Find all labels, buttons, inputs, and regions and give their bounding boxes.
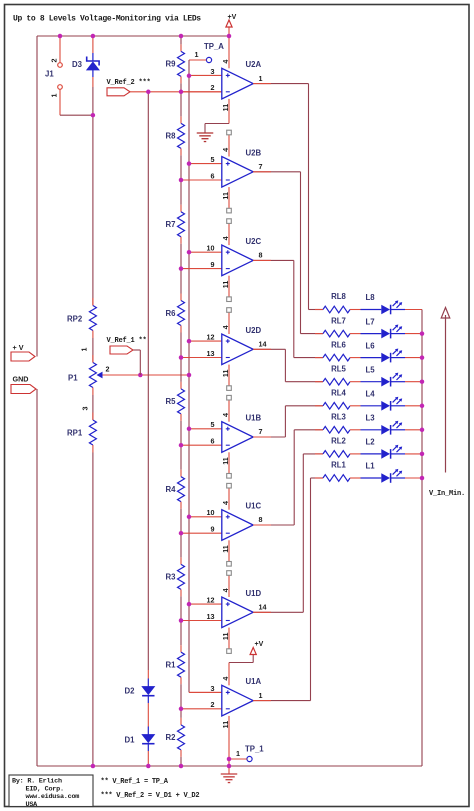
svg-text:V_In_Min.: V_In_Min. [429,490,465,498]
wire chain above R9 [180,36,182,44]
wire D3 to RP2 [92,87,94,306]
svg-text:6: 6 [211,171,215,180]
svg-text:U2D: U2D [246,326,262,335]
ground symbol at TP_1 [221,773,238,775]
wire bus U2A to LED row [308,84,310,310]
resistor RL4 [315,403,361,410]
svg-text:TP_A: TP_A [204,42,224,51]
op-amp U2B [181,148,263,200]
wire L6 cathode to bus [405,357,422,359]
svg-text:R4: R4 [166,485,177,494]
resistor R2 [178,725,185,750]
unconnected square U1D pin 4 [227,571,232,576]
wire chain below R1 [180,677,182,684]
unconnected square U2B pin 4 [227,130,232,135]
junction chain R6-R5 / U2D pin 13 [179,355,184,360]
svg-text:RP1: RP1 [67,429,83,438]
unconnected square U2D pin 4 [227,308,232,313]
junction TP_A line / U2B pin 5 [187,161,192,166]
svg-text:R9: R9 [166,60,177,69]
potentiometer P1 [80,348,110,411]
wire chain above R7 [180,180,182,205]
resistor RL6 [315,354,361,361]
resistor R1 [178,652,185,677]
svg-text:U1B: U1B [246,414,262,423]
svg-text:Up to 8 Levels Voltage-Monitor: Up to 8 Levels Voltage-Monitoring via LE… [13,15,201,24]
test point TP_1 [229,749,252,762]
svg-text:D2: D2 [125,687,136,696]
junction V_Ref_2 / D2 column [146,90,151,95]
junction ground rail / R2 [179,764,184,769]
svg-text:9: 9 [211,525,215,534]
junction +V rail / U2A pin 4 and +V [227,34,232,39]
junction TP_A line / U1B pin 5 [187,427,192,432]
resistor RL1 [315,475,361,482]
svg-text:TP_1: TP_1 [245,745,264,754]
junction +V rail / R9 top [179,34,184,39]
power flag GND [11,385,36,394]
wire RP2 to P1 [92,338,94,363]
resistor R5 [178,389,185,414]
wire U1C pin 4 stub [228,488,230,510]
wire chain above R8 [180,92,182,117]
diode D1 [142,727,154,752]
resistor R9 [178,51,185,76]
wire V_Ref_2 down to D2 [147,92,149,670]
wire ground bottom rail [37,765,422,767]
unconnected square U2C pin 11 [227,297,232,302]
svg-text:USA: USA [26,801,39,809]
svg-text:RL4: RL4 [331,389,346,398]
svg-text:D1: D1 [125,736,136,745]
test point TP_A [189,50,212,63]
svg-text:12: 12 [207,333,215,342]
svg-text:+ V: + V [13,343,24,352]
wire TP_A sense line down to U1A pin 3 [188,60,190,692]
svg-text:3: 3 [211,67,215,76]
wire D3 top lead [92,36,94,53]
wire L3 cathode to bus [405,429,422,431]
power symbol +V at U1A [250,648,256,655]
unconnected square U1C pin 4 [227,483,232,488]
wire U1A pin 11 down [228,716,230,774]
wire L5 cathode to bus [405,381,422,383]
svg-text:RL7: RL7 [331,316,346,325]
svg-text:GND: GND [13,375,29,384]
svg-text:By: R. Erlich: By: R. Erlich [12,778,62,786]
wire U1B pin 4 stub [228,400,230,422]
wire chain below R8 [180,148,182,155]
svg-text:1: 1 [80,348,89,352]
svg-text:3: 3 [211,684,215,693]
wire output U2A pin 1 [253,83,308,85]
net flag V_Ref_2 [107,88,130,96]
wire +V top rail [37,35,229,37]
wire D3 bottom lead [92,70,94,77]
LED L3 [361,421,406,435]
svg-text:8: 8 [259,251,263,260]
LED L5 [361,373,406,387]
unconnected square U1B pin 11 [227,474,232,479]
resistor R4 [178,477,185,502]
wire bus U2B to LED row [300,172,302,334]
LED L1 [361,469,406,483]
wire J1 pin1 to D3 column [60,114,93,116]
svg-text:6: 6 [211,437,215,446]
svg-text:14: 14 [259,340,267,349]
svg-text:www.eidusa.com: www.eidusa.com [26,793,80,801]
svg-text:R2: R2 [166,733,177,742]
svg-text:7: 7 [259,427,263,436]
LED L8 [361,300,406,314]
svg-text:U1D: U1D [246,589,262,598]
svg-text:U2A: U2A [246,60,262,69]
wire output U1C pin 8 [253,524,294,526]
svg-text:R5: R5 [166,397,177,406]
svg-text:12: 12 [207,596,215,605]
wire chain above R2 [180,709,182,718]
resistor R6 [178,301,185,326]
junction LED bus / L1 [420,476,425,481]
junction LED bus / L6 [420,355,425,360]
svg-text:J1: J1 [45,70,54,79]
svg-text:L4: L4 [366,390,376,399]
resistor R8 [178,123,185,148]
svg-text:V_Ref_1 **: V_Ref_1 ** [107,337,147,345]
junction chain R5-R4 / U1B pin 6 [179,443,184,448]
wire L8 cathode to bus [405,309,422,311]
wire L7 cathode to bus [405,333,422,335]
wire LED cathode bus [421,310,423,767]
junction TP_A line / U1C pin 10 [187,515,192,520]
junction +V rail / D3 column [91,34,96,39]
wire U2B pin 4 stub [228,135,230,157]
wire chain above R6 [180,269,182,294]
svg-text:** V_Ref_1 = TP_A: ** V_Ref_1 = TP_A [101,778,169,786]
wire chain below R5 [180,414,182,421]
op-amp U2D [181,325,267,377]
annotation arrow V_In_Min [441,308,450,473]
junction chain R1-R2 / U1A pin 2 [179,707,184,712]
wire bus U1D to LED row [302,454,304,612]
svg-text:R6: R6 [166,309,177,318]
wire U2D pin 4 stub [228,313,230,335]
wire V_Ref_2 to U2A pin 2 [130,91,222,93]
svg-text:L7: L7 [366,317,375,326]
ground symbol at U2A [197,132,214,134]
svg-text:L2: L2 [366,438,376,447]
junction TP_1 tap [227,757,232,762]
op-amp U1D [181,588,267,640]
title block box [9,775,93,807]
unconnected square U1D pin 11 [227,649,232,654]
svg-text:RL1: RL1 [331,461,346,470]
wire chain above R4 [180,445,182,470]
svg-text:2: 2 [106,365,110,374]
svg-text:1: 1 [50,94,59,98]
svg-text:L3: L3 [366,414,376,423]
unconnected square U1B pin 4 [227,395,232,400]
wire output U1D pin 14 [253,611,303,613]
unconnected square U1C pin 11 [227,562,232,567]
svg-text:2: 2 [211,700,215,709]
svg-text:14: 14 [259,603,267,612]
junction ground rail / RP1 [91,764,96,769]
svg-text:2: 2 [50,59,59,63]
diode D2 [142,679,154,704]
op-amp U1A [181,677,263,729]
svg-text:U2C: U2C [246,237,262,246]
wire U2B pin 11 stub [228,187,230,208]
svg-text:R8: R8 [166,132,177,141]
svg-text:EID, Corp.: EID, Corp. [26,785,64,793]
unconnected square U2D pin 11 [227,386,232,391]
net flag V_Ref_1 [110,346,133,354]
junction J1 pin 1 / D3 column [91,113,96,118]
junction LED bus / L4 [420,404,425,409]
op-amp U2C [181,236,263,288]
resistor R3 [178,564,185,589]
wire V_Ref_1 flag link [133,349,141,351]
wire U1A pin 4 to +V [228,663,230,686]
svg-text:R1: R1 [166,661,177,670]
wire chain above R1 [180,621,182,646]
svg-text:*** V_Ref_2 = V_D1 + V_D2: *** V_Ref_2 = V_D1 + V_D2 [101,792,200,800]
op-amp U2A [181,60,263,112]
junction LED bus / L2 [420,452,425,457]
wire L2 cathode to bus [405,453,422,455]
resistor RL3 [315,427,361,434]
zener diode D3 [87,57,99,71]
junction LED bus / L7 [420,331,425,336]
wire left rail upper (+V feed) [36,36,38,357]
svg-text:1: 1 [259,74,263,83]
wire bus U1C to LED row [293,430,295,525]
wire output U2C pin 8 [253,259,294,261]
LED L7 [361,325,406,339]
wire chain below R2 [180,750,182,757]
wire chain below R7 [180,237,182,244]
op-amp U1C [181,501,263,553]
wire output U1A pin 1 [253,700,310,702]
svg-text:L8: L8 [366,293,376,302]
svg-text:1: 1 [259,691,263,700]
wire RP1 to ground rail [92,453,94,767]
svg-text:RL5: RL5 [331,364,346,373]
wire U1C pin 11 stub [228,540,230,561]
svg-text:U2B: U2B [246,148,262,157]
wire chain above R5 [180,358,182,382]
junction chain R4-R3 / U1C pin 9 [179,531,184,536]
svg-text:+V: +V [228,14,237,21]
svg-text:5: 5 [211,155,215,164]
wire chain below R9 [180,76,182,83]
wire output U2D pin 14 [253,348,285,350]
junction TP_A line / U2A pin 3 [187,74,192,79]
LED L2 [361,445,406,459]
wire D2 to D1 [147,703,149,727]
wire U1D pin 11 stub [228,628,230,649]
connector J1 pin 1 [50,85,63,116]
svg-text:RL2: RL2 [331,437,346,446]
wire U1B pin 11 stub [228,452,230,473]
unconnected square U2B pin 11 [227,208,232,213]
svg-text:RL6: RL6 [331,340,346,349]
wire output U2B pin 7 [253,171,300,173]
junction LED bus / L3 [420,428,425,433]
resistor RL2 [315,451,361,458]
LED L6 [361,349,406,363]
junction V_Ref_1 link / wiper wire [138,373,143,378]
svg-text:5: 5 [211,420,215,429]
LED L4 [361,397,406,411]
svg-text:1: 1 [236,749,240,758]
svg-text:13: 13 [207,349,215,358]
junction V_Ref_2 / divider chain [179,90,184,95]
junction chain R3-R1 / U1D pin 13 [179,618,184,623]
wire chain below R3 [180,589,182,596]
wire U2A pin 11 to ground [228,99,230,124]
junction TP_A line / U2D pin 12 [187,339,192,344]
svg-text:7: 7 [259,162,263,171]
svg-text:R7: R7 [166,220,176,229]
svg-text:RL3: RL3 [331,413,346,422]
wire bus U1B to LED row [284,406,286,437]
svg-text:L1: L1 [366,462,376,471]
resistor R7 [178,212,185,237]
wire L4 cathode to bus [405,405,422,407]
svg-text:U1C: U1C [246,502,262,511]
svg-text:RL8: RL8 [331,292,346,301]
resistor RP1 [89,413,96,453]
connector J1 pin 2 [50,36,63,67]
wire P1 to RP1 [92,395,94,420]
junction ground rail / U1A pin 11 [227,764,232,769]
svg-text:P1: P1 [68,374,78,383]
wire output U1B pin 7 [253,436,285,438]
wire bus U1A to LED row [310,478,312,701]
wire bus U2D to LED row [284,349,286,381]
resistor RL5 [315,378,361,385]
svg-text:10: 10 [207,508,215,517]
unconnected square U2C pin 4 [227,219,232,224]
wire left rail lower (GND feed) [36,389,38,766]
svg-text:10: 10 [207,244,215,253]
svg-text:2: 2 [211,83,215,92]
svg-text:V_Ref_2 ***: V_Ref_2 *** [107,79,151,87]
resistor RL7 [315,330,361,337]
resistor RL8 [315,306,361,313]
wire P1 wiper [103,374,190,376]
svg-text:+V: +V [255,641,264,648]
junction chain R8-R7 / U2B pin 6 [179,178,184,183]
svg-text:13: 13 [207,612,215,621]
power symbol +V top [228,28,230,37]
junction TP_A line / U1D pin 12 [187,602,192,607]
svg-text:9: 9 [211,260,215,269]
wire U2C pin 4 stub [228,224,230,246]
svg-text:U1A: U1A [246,677,262,686]
svg-text:D3: D3 [72,60,83,69]
svg-text:L5: L5 [366,365,376,374]
wire U2D pin 11 stub [228,365,230,386]
junction +V rail / J1 pin 2 [58,34,63,39]
svg-text:RP2: RP2 [67,315,83,324]
resistor RP2 [89,298,96,338]
svg-text:R3: R3 [166,573,177,582]
junction TP_A line / U2C pin 10 [187,250,192,255]
wire U2A pin 4 to +V rail [228,36,230,68]
power flag +V [11,352,35,361]
junction LED bus / L5 [420,379,425,384]
wire chain below R4 [180,502,182,509]
svg-text:8: 8 [259,515,263,524]
wire L1 cathode to bus [405,477,422,479]
wire chain below R6 [180,326,182,333]
wire chain above R3 [180,533,182,557]
wire bus U2C to LED row [293,260,295,357]
svg-text:L6: L6 [366,341,376,350]
svg-text:1: 1 [195,50,199,59]
wire U2C pin 11 stub [228,276,230,297]
wire U1D pin 4 stub [228,576,230,598]
op-amp U1B [181,413,263,465]
junction chain R7-R6 / U2C pin 9 [179,266,184,271]
title block text [12,778,79,809]
junction ground rail / D1 [146,764,151,769]
svg-text:3: 3 [81,407,90,411]
junction TP_A line / P1 wiper [187,373,192,378]
wire D1 to ground rail [147,751,149,766]
